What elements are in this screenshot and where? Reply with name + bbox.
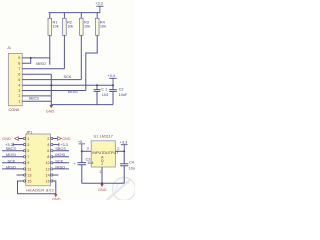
node adj junction (101, 182, 103, 184)
svg-text:11: 11 (27, 167, 31, 171)
svg-text:6: 6 (18, 73, 20, 77)
svg-text:104: 104 (87, 161, 93, 165)
svg-text:10k: 10k (84, 25, 90, 29)
wire pin4 +3.3 rail (22, 84, 113, 86)
node pin8/9 junction (30, 57, 32, 59)
capacitor C3 (74, 151, 94, 183)
svg-text:8: 8 (18, 62, 20, 66)
wire R4 lead (86, 35, 97, 90)
svg-text:SBCS: SBCS (55, 147, 66, 151)
ground GND header left (2, 137, 18, 141)
capacitor C4 (120, 151, 138, 183)
node output junction (123, 150, 125, 152)
svg-text:J1: J1 (7, 46, 11, 50)
power +3.3 header right (59, 143, 68, 147)
svg-text:SCK: SCK (55, 159, 63, 163)
regulator U1 LM1117 (87, 135, 120, 174)
svg-text:5: 5 (18, 78, 20, 82)
capacitor C2 (109, 85, 128, 104)
svg-text:SCK: SCK (64, 75, 72, 79)
svg-text:GND: GND (46, 109, 55, 113)
pins left circles (23, 137, 25, 182)
svg-text:10k: 10k (100, 25, 106, 29)
wire input (82, 150, 91, 152)
power +5 (78, 140, 85, 151)
svg-text:+3.3: +3.3 (107, 74, 115, 78)
wire pin5 (22, 79, 81, 81)
power +3.3 top (95, 2, 103, 13)
svg-text:C 1: C 1 (101, 88, 107, 92)
wire GND vertical (51, 74, 113, 104)
node +3.3 junction (112, 84, 114, 86)
wire pin6 (22, 73, 51, 75)
wire pin15/16 ground loop (18, 181, 56, 194)
svg-text:U1: U1 (94, 135, 99, 139)
svg-text:MOSI: MOSI (6, 153, 16, 157)
svg-text:HEADER 8X2: HEADER 8X2 (26, 189, 54, 193)
power +3.3 header left (5, 143, 13, 147)
svg-text:SBCS: SBCS (6, 147, 17, 151)
svg-text:4: 4 (18, 83, 20, 87)
svg-text:12: 12 (46, 167, 50, 171)
node junction (50, 84, 52, 86)
wire header right stubs (53, 139, 69, 176)
ground GND header bottom (52, 194, 61, 201)
svg-text:3: 3 (87, 146, 89, 150)
svg-text:10: 10 (46, 161, 50, 165)
svg-text:10uF: 10uF (119, 93, 128, 97)
svg-text:+3.3: +3.3 (120, 141, 128, 145)
svg-text:1: 1 (27, 137, 29, 141)
svg-text:14: 14 (46, 173, 50, 177)
wire ground bus (82, 182, 124, 184)
watermark (107, 178, 136, 201)
svg-text:J: J (101, 162, 103, 166)
svg-text:13: 13 (27, 173, 31, 177)
svg-text:GND: GND (2, 137, 11, 141)
svg-text:8: 8 (47, 155, 49, 159)
svg-text:7: 7 (18, 67, 20, 71)
node input junction (81, 150, 83, 152)
svg-text:104: 104 (102, 93, 108, 97)
connector J1 CON9 (7, 46, 22, 112)
wire pin8 elbow (22, 58, 31, 63)
svg-text:4: 4 (47, 143, 49, 147)
ground GND header right (58, 137, 71, 141)
wire pin9 (22, 57, 50, 59)
svg-text:9: 9 (27, 161, 29, 165)
svg-text:SCK: SCK (8, 159, 16, 163)
wire pin3 MOSI (22, 90, 86, 92)
svg-text:10k: 10k (67, 25, 73, 29)
wire R3 lead (80, 35, 82, 79)
svg-text:GND: GND (98, 188, 107, 192)
svg-text:7: 7 (27, 155, 29, 159)
svg-text:LM1117: LM1117 (100, 135, 113, 139)
resistor R3 (80, 13, 91, 36)
wire R1 lead (49, 35, 51, 64)
svg-text:1: 1 (99, 170, 101, 174)
wire output (115, 150, 124, 152)
svg-text:SBCS: SBCS (29, 96, 40, 100)
svg-text:C2: C2 (119, 88, 124, 92)
ground GND mid (46, 105, 55, 113)
wire pin1 (22, 100, 51, 102)
svg-text:15: 15 (27, 179, 31, 183)
svg-text:10uF: 10uF (129, 167, 135, 171)
svg-text:5: 5 (27, 149, 29, 153)
power +3.3 regulator (120, 141, 128, 152)
svg-text:3: 3 (18, 89, 20, 93)
svg-text:MOSI: MOSI (68, 90, 78, 94)
header JP1 (26, 130, 54, 192)
node C1 junction (96, 84, 98, 86)
ground GND regulator (98, 184, 107, 192)
svg-text:GND: GND (52, 197, 61, 200)
svg-text:2: 2 (47, 137, 49, 141)
svg-text:C4: C4 (129, 160, 134, 164)
svg-text:+5: +5 (78, 140, 82, 144)
resistor R2 (63, 13, 74, 36)
svg-text:MISO: MISO (6, 165, 16, 169)
svg-text:6: 6 (47, 149, 49, 153)
svg-text:9: 9 (18, 56, 20, 60)
svg-text:GND: GND (62, 137, 71, 141)
wire pin7 SCK (22, 68, 64, 70)
svg-text:MISO: MISO (36, 62, 46, 66)
svg-text:10k: 10k (53, 25, 59, 29)
capacitor C1 (94, 85, 109, 104)
svg-text:3: 3 (27, 143, 29, 147)
svg-text:1: 1 (18, 100, 20, 104)
wire R2 lead (63, 35, 65, 69)
svg-text:MOSI: MOSI (55, 153, 65, 157)
resistor R4 (95, 13, 106, 36)
wire header left stubs (2, 139, 23, 176)
wire pin2 (22, 95, 51, 97)
pins right circles (51, 137, 53, 182)
svg-text:CON9: CON9 (9, 108, 20, 112)
svg-text:+3.3: +3.3 (95, 2, 103, 6)
svg-text:MISO: MISO (55, 165, 65, 169)
svg-text:16: 16 (46, 179, 50, 183)
resistor R1 (48, 13, 59, 36)
wire adj pin (101, 167, 103, 183)
svg-text:2: 2 (18, 94, 20, 98)
svg-text:2: 2 (117, 147, 119, 151)
power +3.3 mid (107, 74, 116, 85)
wire top +3.3 rail (49, 12, 101, 14)
